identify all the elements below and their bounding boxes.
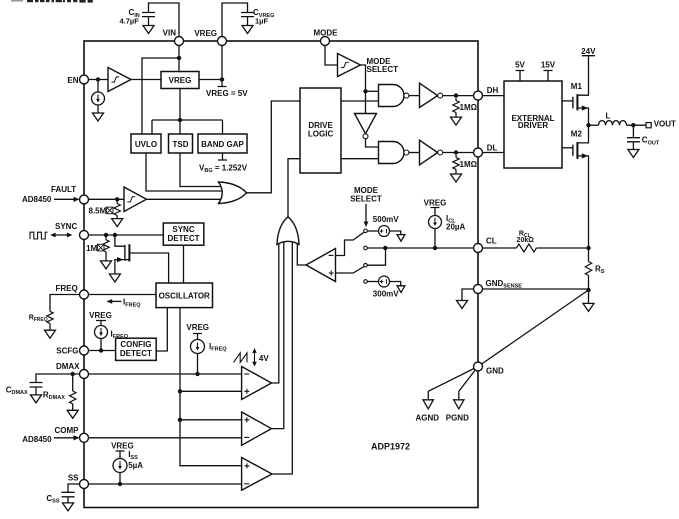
svg-text:DH: DH: [487, 86, 499, 95]
svg-text:ADP1972: ADP1972: [371, 441, 410, 451]
svg-text:MODE: MODE: [314, 28, 339, 37]
svg-text:VREG: VREG: [186, 323, 209, 332]
svg-text:DL: DL: [487, 143, 498, 152]
svg-text:VREG: VREG: [169, 76, 192, 85]
svg-text:SS: SS: [68, 474, 79, 483]
svg-text:VREG = 5V: VREG = 5V: [206, 89, 248, 98]
svg-text:DMAX: DMAX: [56, 362, 80, 371]
svg-text:4.7µF: 4.7µF: [120, 17, 140, 26]
svg-text:4V: 4V: [259, 354, 269, 363]
svg-text:SYNC: SYNC: [55, 222, 77, 231]
svg-text:CL: CL: [486, 237, 497, 246]
svg-text:SELECT: SELECT: [367, 65, 399, 74]
svg-text:1MΩ: 1MΩ: [460, 103, 478, 112]
svg-text:TSD: TSD: [173, 140, 189, 149]
svg-text:VREG: VREG: [89, 311, 112, 320]
svg-text:8.5M: 8.5M: [89, 207, 107, 216]
svg-text:1M: 1M: [86, 244, 97, 253]
svg-text:CONFIG: CONFIG: [120, 340, 151, 349]
svg-text:SYNC: SYNC: [172, 225, 194, 234]
svg-text:500mV: 500mV: [373, 215, 399, 224]
svg-text:DETECT: DETECT: [168, 234, 200, 243]
svg-text:M2: M2: [571, 130, 583, 139]
svg-text:1MΩ: 1MΩ: [460, 160, 478, 169]
svg-text:20kΩ: 20kΩ: [517, 237, 535, 244]
svg-text:VOUT: VOUT: [654, 120, 676, 129]
svg-text:SELECT: SELECT: [350, 194, 382, 203]
svg-text:PGND: PGND: [446, 414, 469, 423]
svg-text:AD8450: AD8450: [22, 435, 52, 444]
svg-text:24V: 24V: [581, 47, 596, 56]
svg-text:5µA: 5µA: [128, 461, 143, 470]
svg-text:BAND GAP: BAND GAP: [201, 140, 244, 149]
svg-text:DETECT: DETECT: [120, 349, 152, 358]
svg-text:VREG: VREG: [424, 199, 447, 208]
svg-text:15V: 15V: [541, 60, 556, 69]
svg-text:1µF: 1µF: [255, 16, 268, 25]
svg-text:SCFG: SCFG: [56, 346, 78, 355]
svg-text:COMP: COMP: [55, 426, 80, 435]
svg-text:M1: M1: [571, 82, 583, 91]
svg-text:GND: GND: [486, 366, 504, 375]
svg-text:FREQ: FREQ: [56, 284, 78, 293]
svg-text:AGND: AGND: [416, 414, 440, 423]
svg-text:VREG: VREG: [194, 29, 217, 38]
svg-text:L: L: [606, 111, 611, 120]
svg-text:VIN: VIN: [163, 28, 177, 37]
svg-text:EN: EN: [67, 76, 78, 85]
svg-text:20µA: 20µA: [446, 222, 466, 231]
svg-text:UVLO: UVLO: [135, 140, 157, 149]
svg-text:OSCILLATOR: OSCILLATOR: [159, 291, 210, 300]
svg-text:5V: 5V: [515, 61, 525, 70]
svg-text:300mV: 300mV: [373, 289, 399, 298]
svg-text:AD8450: AD8450: [22, 195, 52, 204]
svg-text:FAULT: FAULT: [51, 185, 76, 194]
svg-text:DRIVER: DRIVER: [518, 121, 548, 130]
svg-text:LOGIC: LOGIC: [308, 130, 334, 139]
